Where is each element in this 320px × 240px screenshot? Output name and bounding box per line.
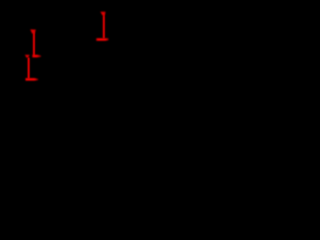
M3 stem glow [103, 16, 105, 38]
M1 top cap [30, 29, 36, 33]
M3 top cap [100, 12, 105, 16]
marker M2 (lower-left pin) [25, 55, 38, 81]
M1 bottom bar [32, 55, 41, 58]
marker M3 (right pin) [96, 12, 108, 41]
M1 stem glow [33, 33, 35, 56]
marker M1 (upper-left pin) [30, 29, 41, 57]
M2 top cap triangle [25, 55, 30, 58]
background [0, 0, 120, 90]
M2 stem core [28, 58, 29, 79]
M1 stem core [33, 32, 34, 56]
M3 bottom bar [96, 38, 108, 41]
M3 stem core [103, 15, 104, 39]
M2 bottom bar [26, 78, 39, 81]
M2 stem glow [28, 58, 30, 78]
